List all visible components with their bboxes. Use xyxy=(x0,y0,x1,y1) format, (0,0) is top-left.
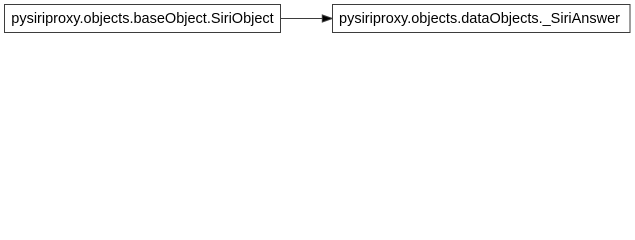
background xyxy=(0,0,635,37)
svg-text:pysiriproxy.objects.dataObject: pysiriproxy.objects.dataObjects._SiriAns… xyxy=(339,11,620,27)
svg-text:pysiriproxy.objects.baseObject: pysiriproxy.objects.baseObject.SiriObjec… xyxy=(11,11,273,27)
node SiriObject (base class box) xyxy=(5,5,281,33)
arrowhead xyxy=(322,15,332,22)
wire edge from SiriObject to _SiriAnswer xyxy=(281,18,323,20)
node _SiriAnswer (derived class box) xyxy=(333,5,631,33)
